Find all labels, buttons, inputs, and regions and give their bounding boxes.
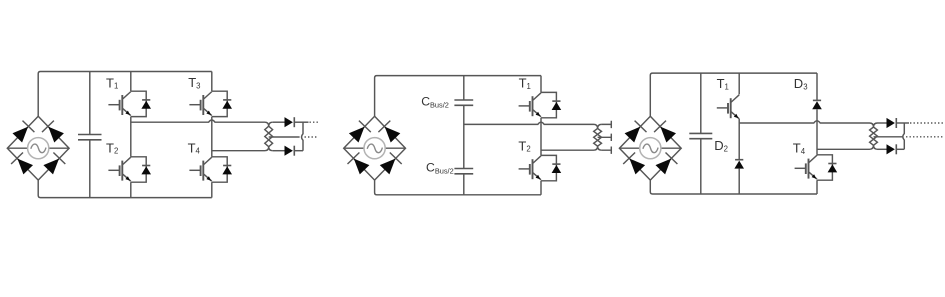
bridge top-right diode of circuit 2 <box>378 121 400 143</box>
wire: leg A middle (circuit 1) <box>130 117 132 157</box>
wire: bridge bottom vertex to DC- bottom rail (circuit 3) <box>650 180 817 194</box>
diode bridge rectifier of circuit 2 (diamond) <box>344 116 406 180</box>
wire: secondary bottom to output diode (circuit 3) <box>878 148 887 150</box>
wire: split capacitor bus (circuit 2) <box>463 76 465 195</box>
diode D3 (circuit 3) <box>812 100 822 109</box>
wire: leg B upper (circuit 1) <box>211 72 213 92</box>
antiparallel diode of T3 <box>222 100 232 109</box>
AC source of circuit 1 <box>7 138 69 159</box>
wire: secondary bottom to output diode (circuit 1) <box>273 150 285 152</box>
wire: leg lower (circuit 2) <box>540 181 542 195</box>
wire: antiparallel diode branch of T4 (circuit 3) <box>817 155 832 180</box>
wire: secondary top stub (circuit 2) <box>602 121 612 128</box>
bridge top-left diode of circuit 3 <box>625 121 647 143</box>
transformer secondary winding (circuit 3) <box>870 123 878 149</box>
wire: DC bus capacitor branch (circuit 1) <box>89 72 91 198</box>
wire: bridge top vertex to DC+ top rail (circuit 1) <box>38 72 212 117</box>
wire: leg middle (circuit 2) <box>540 118 542 156</box>
bridge bottom-right diode of circuit 3 <box>656 153 678 175</box>
IGBT T3 <box>189 92 211 116</box>
wire: leg B lower (circuit 1) <box>211 182 213 197</box>
antiparallel diode of T4 <box>222 166 232 175</box>
wire: top diode cathode to output (circuit 1) <box>294 121 308 123</box>
bridge bottom-right diode of circuit 2 <box>380 153 402 175</box>
IGBT T4 <box>189 157 211 181</box>
bridge top-left diode of circuit 2 <box>349 121 371 143</box>
wire: cathode join bar with hop over centre tap (circuit 1) <box>302 122 304 151</box>
wire: antiparallel diode branch of T2 <box>131 157 146 182</box>
wire: bridge top vertex to DC+ top rail (circuit 3) <box>650 73 817 116</box>
wire: bottom diode cathode to join bar (circuit 3) <box>896 148 904 150</box>
wire: T4 emitter to bottom rail (circuit 3) <box>816 180 818 194</box>
wire: secondary centre tap stub (circuit 2) <box>598 134 612 141</box>
IGBT T2 <box>108 157 130 181</box>
transformer secondary winding (circuit 1) <box>265 122 273 151</box>
capacitor CBus/2 upper plates <box>454 100 473 105</box>
wire: leg 1 collector (circuit 3) <box>738 73 740 94</box>
capacitor C (circuit 1) plates <box>78 135 102 140</box>
wire: leg upper (circuit 2) <box>540 76 542 93</box>
bridge top-right diode of circuit 1 <box>42 121 64 143</box>
bridge top-left diode of circuit 1 <box>13 121 35 143</box>
wire: cathode join bar with hop over centre tap (circuit 3) <box>903 123 905 149</box>
output rectifier diode top (circuit 3) <box>887 118 897 128</box>
wire: capacitor midpoint to primary (hop over leg) + primary winding + leg midpoint wire (circuit 2) <box>464 122 602 150</box>
diode bridge rectifier of circuit 1 (diamond) <box>7 116 69 180</box>
wire: secondary top to output diode (circuit 3) <box>878 122 887 124</box>
IGBT T4 (circuit 3) <box>795 155 817 179</box>
AC source of circuit 2 <box>344 138 406 159</box>
wire: secondary centre tap (circuit 1) <box>269 136 300 138</box>
wire: top diode cathode to output (circuit 3) <box>896 122 909 124</box>
wire: leg A lower (circuit 1) <box>130 182 132 197</box>
IGBT T1 (circuit 3) <box>717 95 739 119</box>
wire: bridge bottom vertex to DC- bottom rail (circuit 2) <box>375 180 541 195</box>
wire: leg 1 emitter down to D2 (circuit 3) <box>738 119 740 160</box>
wire: DC bus capacitor branch (circuit 3) <box>700 73 702 194</box>
diode D2 (circuit 3) <box>734 160 744 169</box>
antiparallel diode of T1 <box>141 100 151 109</box>
IGBT T1 <box>108 92 130 116</box>
wire: secondary top to output diode (circuit 1) <box>273 121 285 123</box>
wire: secondary bottom stub (circuit 2) <box>602 147 612 154</box>
wire: antiparallel diode branch of T1 <box>131 91 146 116</box>
output rectifier diode bottom (circuit 1) <box>285 146 295 156</box>
wire: leg B middle (circuit 1) <box>211 117 213 157</box>
bridge bottom-right diode of circuit 1 <box>43 153 65 175</box>
wire: node A to primary (hop over leg 2) + primary winding + node B wire (circuit 3) <box>739 121 877 150</box>
antiparallel diode of T1 (circuit 2) <box>552 101 562 110</box>
bridge bottom-left diode of circuit 1 <box>11 153 33 175</box>
wire: bottom diode cathode to join bar (circuit 1) <box>294 150 303 152</box>
diode bridge rectifier of circuit 3 (diamond) <box>619 116 681 180</box>
AC source of circuit 3 <box>619 138 681 159</box>
bridge top-right diode of circuit 3 <box>654 121 676 143</box>
antiparallel diode of T4 (circuit 3) <box>828 164 838 173</box>
wire: leg A upper (circuit 1) <box>130 72 132 92</box>
wire: antiparallel diode branch of T4 <box>212 157 227 182</box>
wire: dotted output top (circuit 3) <box>910 122 944 124</box>
wire: secondary centre tap (circuit 3) <box>874 136 903 138</box>
wire: dotted output centre (circuit 3) <box>906 136 944 138</box>
capacitor C (circuit 3) plates <box>689 133 712 138</box>
wire: bridge top vertex to DC+ top rail (circuit 2) <box>375 76 541 117</box>
antiparallel diode of T2 <box>141 166 151 175</box>
wire: leg 2 middle D3 anode down to T4 (circuit 3) <box>816 109 818 155</box>
bridge bottom-left diode of circuit 3 <box>623 153 645 175</box>
wire: bridge bottom vertex to DC- bottom rail (circuit 1) <box>38 180 212 198</box>
wire: dotted output centre (circuit 1) <box>305 136 318 138</box>
IGBT T2 (circuit 2) <box>519 156 541 180</box>
wire: antiparallel diode branch of T1 (circuit 2) <box>541 92 556 117</box>
transformer secondary winding (circuit 2) <box>594 124 602 150</box>
wire: antiparallel diode branch of T2 (circuit 2) <box>541 155 556 180</box>
wire: antiparallel diode branch of T3 <box>212 91 227 116</box>
output rectifier diode bottom (circuit 3) <box>887 144 897 154</box>
wire: D2 anode to bottom rail (circuit 3) <box>738 169 740 194</box>
wire: leg 2 top to D3 (circuit 3) <box>816 73 818 100</box>
wire: dotted output top (circuit 1) <box>310 121 319 123</box>
output rectifier diode top (circuit 1) <box>285 117 295 127</box>
antiparallel diode of T2 (circuit 2) <box>552 164 562 173</box>
bridge bottom-left diode of circuit 2 <box>348 153 370 175</box>
IGBT T1 (circuit 2) <box>519 93 541 117</box>
capacitor CBus/2 lower plates <box>454 169 473 174</box>
wire: leg A midpoint to transformer primary (hop over leg B) + primary winding + leg B midpoint wire (circuit 1) <box>131 120 273 151</box>
